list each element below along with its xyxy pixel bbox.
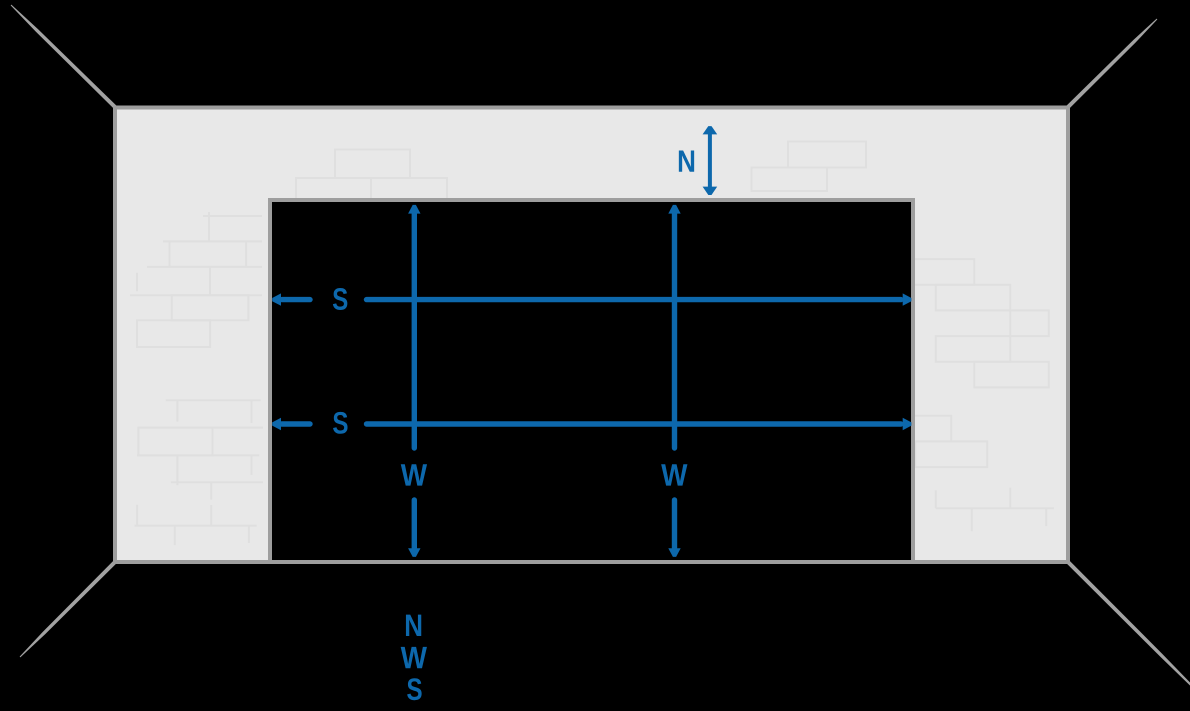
label W right (661, 464, 687, 485)
label W left (401, 464, 427, 485)
perspective line top-left (11, 5, 117, 109)
brick cluster top-right (752, 142, 867, 192)
wall face (115, 108, 1068, 563)
dimension arrow W left (408, 205, 420, 557)
brick cluster right upper (913, 259, 1049, 387)
brick cluster top-left (296, 150, 447, 205)
brick cluster left lower (135, 400, 264, 545)
perspective line top-right (1066, 19, 1157, 109)
brick cluster right lower (913, 416, 988, 467)
dimension arrow W right (668, 205, 680, 557)
dimension arrow S lower (272, 418, 911, 430)
legend letter W (401, 647, 427, 668)
brick cluster left upper (130, 212, 262, 347)
legend letter S (407, 678, 421, 700)
garage opening (270, 200, 913, 562)
perspective line bottom-left (20, 560, 117, 657)
brick cluster right bottom (936, 488, 1054, 532)
dimension arrow N (lintel height) (703, 126, 718, 195)
legend letter N (406, 615, 421, 636)
dimension arrow S upper (272, 293, 911, 305)
label N (lintel) (679, 150, 694, 171)
label S upper (333, 288, 347, 310)
label S lower (333, 412, 347, 434)
perspective line bottom-right (1066, 560, 1190, 686)
